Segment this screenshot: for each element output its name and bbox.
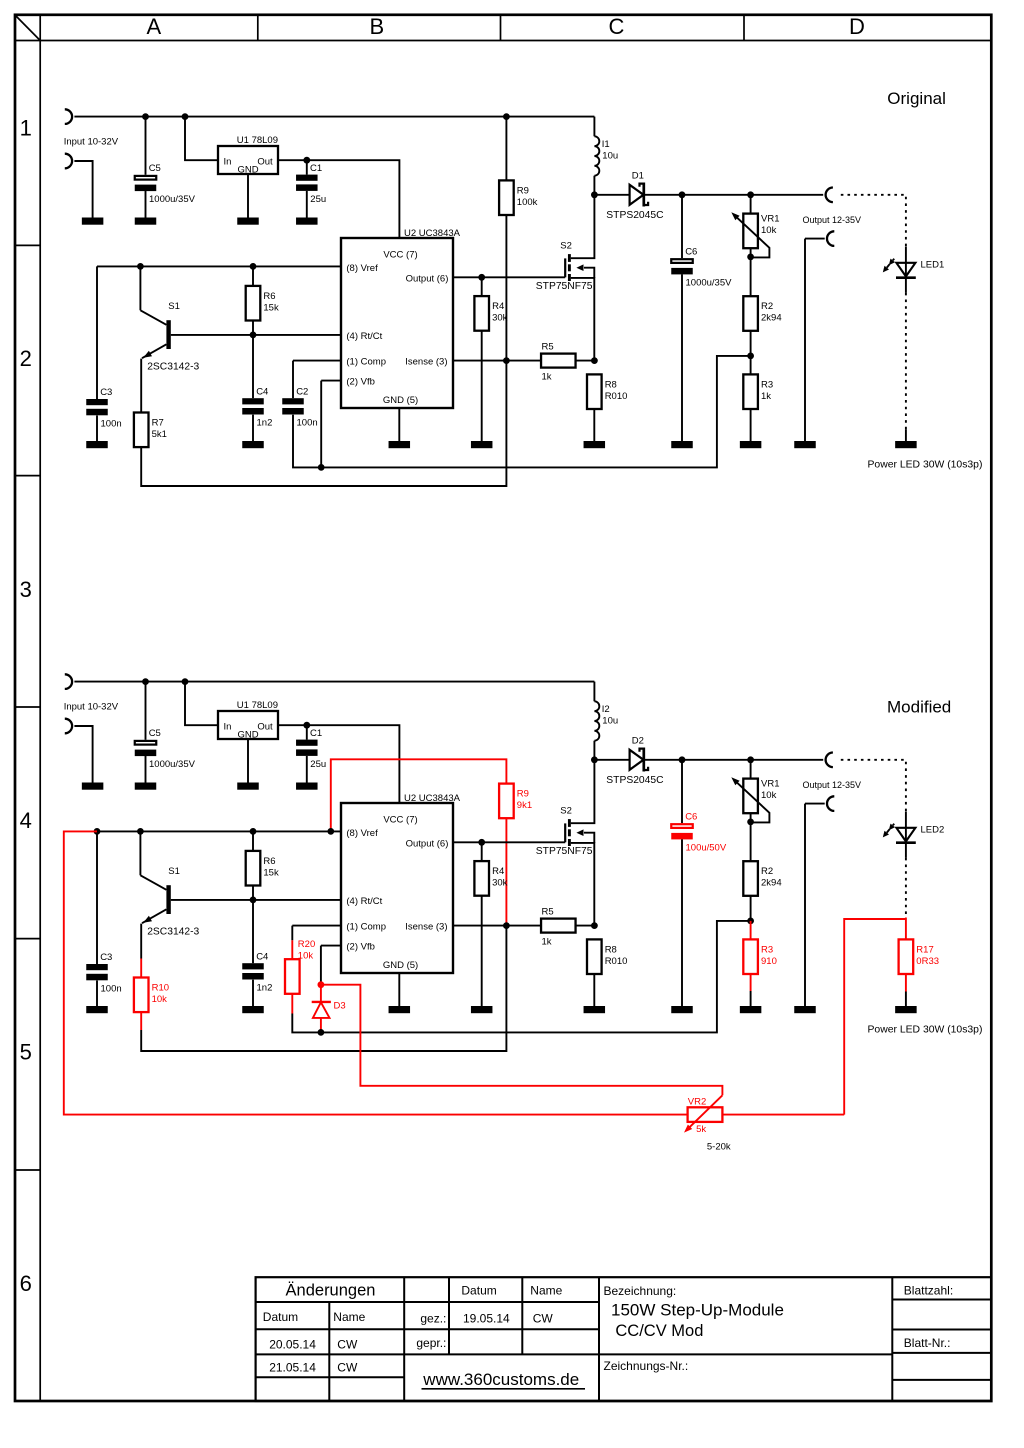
junction at 320.9,1032.4 (318, 1029, 325, 1036)
wire output return (805, 803, 825, 805)
svg-text:5: 5 (20, 1040, 32, 1065)
svg-text:R2: R2 (761, 866, 773, 877)
junction at 750.6,759.8 (747, 756, 754, 763)
svg-text:Power LED 30W (10s3p): Power LED 30W (10s3p) (868, 459, 983, 470)
svg-text:Out: Out (257, 722, 273, 733)
junction at 750.6,821.9 (747, 819, 754, 826)
svg-text:(1) Comp: (1) Comp (346, 922, 386, 933)
svg-text:C6: C6 (685, 246, 697, 257)
potentiometer VR1 (10k) (731, 212, 779, 257)
ground C3 (86, 441, 108, 448)
svg-text:Isense (3): Isense (3) (405, 922, 447, 933)
wire Comp line (293, 360, 341, 362)
svg-text:C1: C1 (310, 163, 322, 174)
potentiometer VR2 (5k) (684, 1095, 731, 1152)
wire red R3 down (750, 974, 752, 991)
title block right row 1 (892, 1299, 991, 1301)
wire R5 to source node (576, 360, 595, 362)
capacitor C3 (100n) (86, 952, 121, 994)
resistor R6 (15k) (246, 286, 279, 321)
LED LED2 (883, 824, 944, 843)
wire C1 to ground (306, 756, 308, 783)
junction at 506.4,360.6 (503, 357, 510, 364)
svg-text:910: 910 (761, 956, 777, 967)
wire Output to R4 (481, 277, 483, 296)
regulator U1 78L09 (218, 700, 278, 741)
svg-text:150W Step-Up-Module: 150W Step-Up-Module (611, 1301, 784, 1320)
wire C5 to ground (145, 756, 147, 783)
wire Vref line (97, 830, 341, 832)
svg-text:(4) Rt/Ct: (4) Rt/Ct (346, 896, 382, 907)
svg-text:Isense (3): Isense (3) (405, 357, 447, 368)
junction at 750.6,355.9 (747, 353, 754, 360)
wire R10 to Isense node (141, 926, 506, 1051)
wire R9 to Isense (505, 215, 507, 361)
title block divider bezeichnung (598, 1277, 600, 1401)
svg-text:I2: I2 (602, 704, 610, 715)
svg-text:10k: 10k (761, 790, 777, 801)
ground LED (895, 441, 917, 448)
junction at 594.4,759.8 (591, 756, 598, 763)
svg-text:D1: D1 (632, 171, 644, 182)
wire U2 GND (398, 973, 400, 1006)
wire R20 to feedback node (292, 1014, 321, 1033)
svg-text:1000u/35V: 1000u/35V (149, 759, 196, 770)
svg-text:2k94: 2k94 (761, 313, 782, 324)
title block row line 2 (256, 1328, 599, 1330)
svg-text:LED1: LED1 (921, 259, 945, 270)
svg-text:Zeichnungs-Nr.:: Zeichnungs-Nr.: (604, 1359, 689, 1373)
resistor R2 (2k94) (743, 296, 781, 331)
wire C6 to ground (681, 274, 683, 441)
svg-text:I1: I1 (602, 139, 610, 150)
svg-text:100n: 100n (101, 418, 122, 429)
wire to C1 (306, 725, 308, 739)
wire R4 to ground (481, 896, 483, 1006)
wire Vref line (97, 265, 341, 267)
wire LED to ground (905, 430, 907, 442)
wire Vref to R6 (252, 266, 254, 286)
wire to C6 (681, 195, 683, 258)
svg-text:R5: R5 (542, 341, 554, 352)
junction at 145.5,116.6 (142, 113, 149, 120)
svg-text:R3: R3 (761, 379, 773, 390)
wire Rt/Ct line (171, 334, 341, 336)
ground C6 (671, 1006, 693, 1013)
resistor R4 (30k) (474, 861, 507, 896)
ground R3 (740, 441, 762, 448)
svg-text:Original: Original (887, 89, 946, 108)
wire node to diode (594, 759, 629, 761)
ground R8 (584, 1006, 606, 1013)
wire S1 emitter down (140, 927, 142, 959)
wire red R17 down (905, 974, 907, 992)
svg-text:Output 12-35V: Output 12-35V (803, 780, 862, 790)
wire Output(6) to gate (453, 841, 565, 843)
svg-text:R4: R4 (492, 866, 504, 877)
wire Isense to R5 (453, 360, 541, 362)
svg-text:U2 UC3843A: U2 UC3843A (404, 228, 461, 239)
wire to C1 (306, 160, 308, 174)
wire top rail (74, 681, 594, 683)
svg-text:CW: CW (337, 1337, 358, 1351)
svg-text:1: 1 (20, 115, 32, 140)
svg-text:www.360customs.de: www.360customs.de (422, 1370, 579, 1389)
wire red R10 top lead (140, 959, 142, 978)
wire Vref to C3 (96, 831, 98, 964)
svg-text:U1 78L09: U1 78L09 (237, 135, 278, 146)
junction at 682,194.8 (679, 191, 686, 198)
wire C3 to ground (96, 981, 98, 1007)
junction at 750.6,256.9 (747, 254, 754, 261)
wire red Vref to VR2 left (64, 831, 688, 1114)
wire Rt/Ct line (171, 899, 341, 901)
title block outer (256, 1277, 992, 1401)
potentiometer VR1 (10k) (731, 777, 779, 822)
svg-text:D: D (849, 14, 865, 39)
svg-text:(2) Vfb: (2) Vfb (346, 377, 375, 388)
svg-text:2k94: 2k94 (761, 878, 782, 889)
svg-text:10k: 10k (761, 225, 777, 236)
wire U1 Out to VCC (278, 160, 399, 238)
svg-text:Output 12-35V: Output 12-35V (803, 215, 862, 225)
svg-text:R9: R9 (517, 789, 529, 800)
wire R8 to ground (593, 409, 595, 441)
wire Output to R4 (481, 842, 483, 861)
wire input return (74, 161, 92, 218)
resistor R9 (100k) (499, 180, 538, 215)
wire R7 to Isense node (141, 361, 506, 486)
wire U1 GND (247, 174, 249, 218)
svg-text:1n2: 1n2 (257, 983, 273, 994)
wire U1 Out to VCC (278, 725, 399, 803)
capacitor C3 (100n) (86, 387, 121, 429)
svg-text:(2) Vfb: (2) Vfb (346, 942, 375, 953)
output connector + (Output 12-35V) (826, 188, 833, 203)
wire R2 to node (750, 331, 752, 356)
output connector + (Output 12-35V) (826, 753, 833, 768)
resistor R2 (2k94) (743, 861, 781, 896)
junction at 145.5,681.6 (142, 678, 149, 685)
ground U2 (389, 1006, 411, 1013)
svg-text:1k: 1k (542, 372, 552, 383)
svg-text:9k1: 9k1 (517, 800, 532, 811)
svg-text:R17: R17 (916, 944, 933, 955)
svg-text:4: 4 (20, 808, 32, 833)
wire inductor to diode node (593, 741, 595, 760)
title block divider datum column (448, 1277, 450, 1354)
svg-text:C1: C1 (310, 728, 322, 739)
IC U2 UC3843A (341, 228, 461, 408)
input connector + (Input 10-32V) (65, 674, 72, 689)
resistor R8 (R010) (587, 939, 627, 974)
svg-text:(8) Vref: (8) Vref (346, 263, 378, 274)
diode D2 (STPS2045C) (606, 736, 664, 786)
ground input (82, 218, 104, 225)
wire R2 to node (750, 896, 752, 921)
svg-text:1n2: 1n2 (257, 418, 273, 429)
capacitor C4 (1n2) (242, 951, 272, 993)
svg-text:C4: C4 (256, 951, 268, 962)
capacitor C5 (1000u/35V) (135, 728, 196, 770)
wire R5 to source node (576, 925, 595, 927)
wire diode to output (644, 759, 823, 761)
inductor I2 (10u) (594, 701, 618, 740)
wire red node to R3 (750, 921, 752, 940)
svg-text:1k: 1k (761, 391, 771, 402)
svg-text:U2 UC3843A: U2 UC3843A (404, 793, 461, 804)
inductor I1 (10u) (594, 136, 618, 175)
transistor S1 (2SC3142-3) (140, 301, 199, 372)
svg-text:S2: S2 (560, 805, 572, 816)
column divider C|D (743, 15, 745, 41)
svg-text:VCC (7): VCC (7) (383, 249, 417, 260)
wire inductor to diode node (593, 176, 595, 195)
wire Vref to S1 collector (139, 266, 141, 310)
wire red VR2 to R17 node (844, 919, 906, 1115)
junction at 253,334.9 (250, 332, 257, 339)
svg-text:Datum: Datum (461, 1284, 496, 1298)
svg-text:R9: R9 (517, 185, 529, 196)
ground U2 (389, 441, 411, 448)
wire red R9 to Isense (505, 818, 507, 925)
ground output return (794, 441, 816, 448)
MOSFET S2 (STP75NF75) (536, 760, 595, 926)
column divider B|C (500, 15, 502, 41)
wire feedback to R2/R3 node (321, 921, 751, 1033)
wire red D3 node to VR2 wiper (321, 985, 723, 1096)
wire C1 to ground (306, 191, 308, 218)
svg-text:VR1: VR1 (761, 213, 779, 224)
wire C4 to ground (252, 415, 254, 441)
wire to VR1 (750, 195, 752, 213)
ground U1 (237, 783, 259, 790)
capacitor C6 (1000u/35V) (671, 246, 732, 288)
junction at 140.4,266.4 (137, 263, 144, 270)
wire Vref to S1 collector (139, 831, 141, 875)
title block divider gez column (403, 1277, 405, 1401)
title block right row 4 (892, 1379, 991, 1381)
svg-text:Power LED 30W (10s3p): Power LED 30W (10s3p) (868, 1024, 983, 1035)
wire Comp down (291, 926, 293, 941)
ground R17 (895, 1006, 917, 1013)
wire S1 emitter to R7 (140, 362, 142, 413)
junction at 185,681.6 (182, 678, 189, 685)
svg-text:S1: S1 (168, 866, 180, 877)
svg-text:Datum: Datum (263, 1310, 298, 1324)
wire diode to output (644, 194, 823, 196)
svg-text:R010: R010 (605, 956, 628, 967)
svg-text:In: In (224, 722, 232, 733)
svg-text:GND: GND (237, 730, 258, 741)
wire R17 to ground (905, 992, 907, 1007)
ground input (82, 783, 104, 790)
resistor R9 (9k1) (499, 784, 532, 819)
wire rail to R9 (505, 117, 507, 181)
wire red R10 bottom lead (140, 1012, 142, 1030)
title block divider blattzahl (891, 1277, 893, 1401)
wire R6 to Rt/Ct (252, 321, 254, 335)
svg-text:Name: Name (530, 1284, 562, 1298)
svg-text:D3: D3 (334, 1001, 346, 1012)
junction at 140.4,831.4 (137, 828, 144, 835)
wire node to diode (594, 194, 629, 196)
svg-text:30k: 30k (492, 313, 508, 324)
wire C6 to ground (681, 839, 683, 1006)
wire LED anode (905, 247, 907, 293)
junction at 185,116.6 (182, 113, 189, 120)
wire red VR2 right (722, 1114, 844, 1116)
svg-text:R010: R010 (605, 391, 628, 402)
svg-text:R20: R20 (298, 939, 315, 950)
resistor R3 (1k) (743, 374, 773, 409)
wire R3 to ground (750, 991, 752, 1006)
junction at 253,266.4 (250, 263, 257, 270)
row divider 2|3 (15, 475, 40, 477)
capacitor C2 (100n) (282, 386, 317, 428)
resistor R20 (10k) (285, 939, 315, 994)
wire input return (74, 726, 92, 783)
wire feedback to R2/R3 node (321, 356, 750, 468)
svg-text:VR1: VR1 (761, 778, 779, 789)
svg-text:STP75NF75: STP75NF75 (536, 281, 593, 292)
IC U2 UC3843A (341, 793, 461, 973)
title block row line 1 (256, 1301, 599, 1303)
title block row line 4 (256, 1376, 405, 1378)
svg-text:5-20k: 5-20k (707, 1142, 731, 1153)
wire to VR1 (750, 760, 752, 778)
svg-text:10u: 10u (602, 151, 618, 162)
svg-text:30k: 30k (492, 878, 508, 889)
wire Rt/Ct to C4 (252, 335, 254, 398)
svg-text:Modified: Modified (887, 698, 951, 717)
svg-text:CC/CV Mod: CC/CV Mod (615, 1322, 703, 1340)
svg-text:STPS2045C: STPS2045C (606, 210, 664, 221)
resistor R8 (R010) (587, 374, 627, 409)
junction at 506.4,116.6 (503, 113, 510, 120)
svg-text:10u: 10u (602, 716, 618, 727)
row divider 4|5 (15, 938, 40, 940)
wire R4 to ground (481, 331, 483, 441)
wire C3 to ground (96, 416, 98, 442)
svg-text:C: C (609, 14, 625, 39)
wire U2 GND (398, 408, 400, 441)
svg-text:LED2: LED2 (921, 824, 945, 835)
svg-text:GND: GND (237, 165, 258, 176)
svg-text:C5: C5 (149, 163, 161, 174)
wire Comp line (292, 925, 341, 927)
ground U1 (237, 218, 259, 225)
resistor R7 (5k1) (134, 413, 167, 448)
junction at 750.6,920.9 (747, 918, 754, 925)
ground R4 (471, 441, 493, 448)
junction at 97,831.4 (94, 828, 101, 835)
wire top rail (74, 116, 594, 118)
title block right row 2 (892, 1329, 991, 1331)
svg-text:6: 6 (20, 1271, 32, 1296)
MOSFET S2 (STP75NF75) (536, 195, 595, 361)
svg-text:C2: C2 (296, 386, 308, 397)
wire C5 to ground (145, 191, 147, 218)
junction at 682,759.8 (679, 756, 686, 763)
title block divider datum/name (328, 1302, 330, 1401)
svg-text:Bezeichnung:: Bezeichnung: (604, 1284, 677, 1298)
svg-text:3: 3 (20, 577, 32, 602)
diode D1 (STPS2045C) (606, 171, 664, 221)
svg-text:1000u/35V: 1000u/35V (686, 277, 733, 288)
svg-text:Out: Out (257, 157, 273, 168)
row divider 5|6 (15, 1169, 40, 1171)
svg-text:100u/50V: 100u/50V (686, 842, 727, 853)
wire Isense to R5 (453, 925, 541, 927)
wire dashed LED cathode (905, 858, 907, 918)
junction Vfb/D3 (red) (318, 981, 325, 988)
wire Rt/Ct to C4 (252, 900, 254, 963)
input connector + (Input 10-32V) (65, 109, 72, 124)
svg-text:2SC3142-3: 2SC3142-3 (147, 926, 199, 937)
wire rail to U1 In (185, 117, 218, 161)
svg-text:R7: R7 (152, 417, 164, 428)
capacitor C1 (25u) (296, 163, 326, 205)
svg-text:S1: S1 (168, 301, 180, 312)
wire red R20 top lead (291, 940, 293, 959)
junction at 594.4,925.6 (591, 922, 598, 929)
resistor R5 (1k) (541, 341, 576, 382)
junction at 750.6,194.8 (747, 191, 754, 198)
wire to C6 (681, 760, 683, 823)
svg-text:STPS2045C: STPS2045C (606, 775, 664, 786)
ground R8 (584, 441, 606, 448)
input connector - (65, 719, 72, 734)
svg-text:CW: CW (533, 1311, 554, 1325)
wire R3 to ground (750, 409, 752, 441)
wire Output(6) to gate (453, 276, 565, 278)
svg-text:D2: D2 (632, 736, 644, 747)
wire U1 GND (247, 739, 249, 783)
svg-text:R8: R8 (605, 379, 617, 390)
svg-text:Blattzahl:: Blattzahl: (904, 1284, 953, 1298)
junction at 594.4,194.8 (591, 191, 598, 198)
wire dashed output to LED (841, 195, 906, 247)
capacitor C4 (1n2) (242, 386, 272, 428)
svg-text:B: B (369, 14, 384, 39)
wire Vfb pin (321, 380, 341, 382)
svg-text:19.05.14: 19.05.14 (463, 1311, 510, 1325)
wire red R20 bottom lead (291, 994, 293, 1014)
capacitor C5 (1000u/35V) (135, 163, 196, 205)
wire rail to inductor (593, 117, 595, 137)
ground C1 (296, 783, 318, 790)
svg-text:GND (5): GND (5) (383, 960, 418, 971)
wire rail to C5 (145, 682, 147, 740)
svg-text:Name: Name (333, 1310, 365, 1324)
ground C4 (242, 441, 264, 448)
junction at 330.8,831.4 (327, 828, 334, 835)
resistor R17 (0R33) (899, 939, 939, 974)
ground C1 (296, 218, 318, 225)
svg-text:Input 10-32V: Input 10-32V (64, 701, 119, 712)
junction at 506.4,925.6 (503, 922, 510, 929)
title block row line 3 (256, 1353, 893, 1355)
junction at 306.8,160.2 (303, 157, 310, 164)
svg-text:R6: R6 (263, 856, 275, 867)
resistor R4 (30k) (474, 296, 507, 331)
ground C6 (671, 441, 693, 448)
wire VR1 to R2 (750, 248, 752, 296)
svg-text:Output (6): Output (6) (406, 273, 449, 284)
svg-text:Input 10-32V: Input 10-32V (64, 136, 119, 147)
junction at 594.4,360.6 (591, 357, 598, 364)
